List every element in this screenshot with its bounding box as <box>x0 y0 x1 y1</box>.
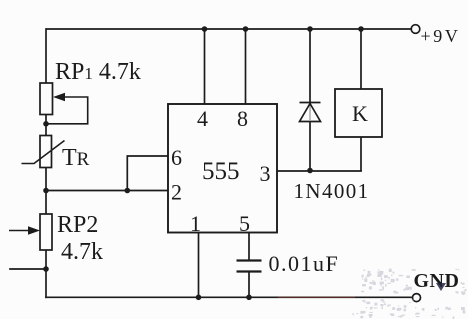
junction diode / +9V rail <box>307 26 313 32</box>
junction pin1 / ground rail <box>196 295 202 301</box>
RP2 wiper arm <box>9 230 30 232</box>
wire pin 3 <box>277 170 361 172</box>
junction RP1 bottom / wiper <box>43 121 49 127</box>
wire top rail <box>47 28 411 30</box>
junction relay K / +9V rail <box>358 26 364 32</box>
relay K <box>335 89 382 137</box>
diode 1N4001 <box>300 103 321 122</box>
wire RP1 to TR <box>45 115 47 136</box>
svg-text:TR: TR <box>62 145 90 171</box>
junction TR bottom / pins 2,6 wire <box>43 188 49 194</box>
svg-text:0.01uF: 0.01uF <box>269 251 340 276</box>
svg-text:4: 4 <box>197 106 208 131</box>
wire TR to node <box>45 168 47 191</box>
junction RP2 bottom / stub <box>43 266 49 272</box>
wire pin 6 <box>127 156 168 191</box>
wire pin 2 <box>127 190 168 192</box>
wire node to RP2 <box>45 191 47 215</box>
junction diode anode / pin3 wire <box>307 168 313 174</box>
svg-text:8: 8 <box>237 106 248 131</box>
svg-text:GND: GND <box>414 270 460 292</box>
op IC 555 U1 <box>168 104 277 233</box>
potentiometer RP2 <box>40 214 52 250</box>
potentiometer RP1 <box>40 83 53 115</box>
junction pin4 / +9V rail <box>202 26 208 32</box>
wire node to pins 2,6 <box>46 190 127 192</box>
wire pin 4 <box>204 29 206 104</box>
svg-text:1: 1 <box>190 211 201 236</box>
junction pin8 / +9V rail <box>243 26 249 32</box>
RP1 wiper arm <box>48 97 88 124</box>
junction pin2 / pin6 <box>125 188 131 194</box>
wire red tint segment (scan artifact) <box>278 296 355 298</box>
wire diode branch <box>309 29 311 171</box>
svg-text:RP1 4.7k: RP1 4.7k <box>55 59 141 85</box>
wire pin 5 <box>248 233 250 298</box>
svg-text:2: 2 <box>171 180 182 205</box>
svg-text:K: K <box>352 101 368 126</box>
svg-text:3: 3 <box>260 161 271 186</box>
terminal +9V <box>411 25 420 34</box>
svg-text:RP2: RP2 <box>57 212 98 238</box>
svg-text:4.7k: 4.7k <box>61 239 103 265</box>
wire left rail upper <box>45 29 47 83</box>
wire relay branch <box>360 29 362 171</box>
svg-text:5: 5 <box>239 211 250 236</box>
svg-text:555: 555 <box>202 158 240 185</box>
wire left stub <box>10 268 46 270</box>
junction capacitor / ground rail <box>246 295 252 301</box>
capacitor C1 plates <box>237 261 262 272</box>
thermistor TR <box>40 136 52 168</box>
wire pin 8 <box>245 29 247 104</box>
terminal GND <box>413 294 421 302</box>
svg-text:6: 6 <box>171 145 182 170</box>
svg-text:+9V: +9V <box>421 26 461 46</box>
wire RP2 to bottom corner <box>45 250 47 297</box>
wire pin 1 <box>198 233 200 298</box>
wire bottom rail <box>46 296 413 298</box>
svg-text:1N4001: 1N4001 <box>294 179 370 203</box>
